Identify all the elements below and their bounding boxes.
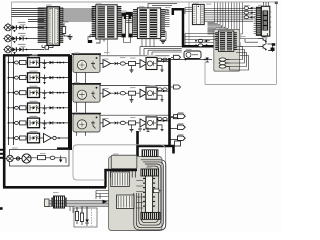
diode D17 <box>55 156 66 164</box>
resistor R2 <box>62 23 65 36</box>
capacitor C21 <box>15 61 19 64</box>
sensor box RV4 <box>184 51 201 59</box>
resistor R23 <box>120 121 128 124</box>
wire rail V1 <box>8 57 10 146</box>
LED D14 <box>50 106 65 109</box>
wire U3 side whiskers <box>126 10 170 46</box>
flag OUT3 <box>171 115 181 119</box>
resistor R25 <box>129 91 140 102</box>
wire bus frame to U1 <box>12 9 45 22</box>
left panel box border <box>3 55 106 187</box>
IC U6 <box>215 31 237 51</box>
capacitor C24 <box>15 106 19 109</box>
resistor R32 <box>244 16 255 19</box>
sensor box RV3 <box>72 114 102 132</box>
diode D40 <box>85 207 89 226</box>
LED D12 <box>50 76 65 79</box>
optocoupler U14 <box>28 101 40 113</box>
diode D2 <box>18 22 26 30</box>
op-amp U23A <box>100 119 114 127</box>
wire vertical bus to B1 <box>208 3 243 35</box>
wire U3 top <box>148 4 177 14</box>
diode D3 <box>12 36 17 43</box>
wire module left pins <box>136 181 143 209</box>
op-amp U21B <box>140 60 149 68</box>
wire row 2 output <box>157 90 170 101</box>
IC U3 <box>133 8 165 39</box>
resistor R24 <box>129 62 140 73</box>
wire net IN1 <box>10 27 44 29</box>
wire net IN3 <box>10 49 44 51</box>
wire row 3 output <box>157 120 170 131</box>
op-amp U23B <box>140 119 149 127</box>
op-amp U22B <box>140 89 149 97</box>
module block M2 <box>109 157 163 231</box>
transformer T1 <box>51 196 66 208</box>
transistor Q12 <box>43 75 47 85</box>
crystal X2 <box>141 212 160 219</box>
LED D13 <box>50 91 65 94</box>
display DS1 <box>261 6 271 36</box>
motor M1 <box>13 154 31 163</box>
optocoupler U29 <box>146 115 157 129</box>
resistor R29 <box>158 118 168 121</box>
sensor box RV2 <box>72 84 102 102</box>
rectifier box <box>74 208 97 227</box>
transistor Q8 <box>258 44 267 51</box>
connector J4 <box>5 155 14 161</box>
diode D23 <box>115 121 121 124</box>
IC U4 <box>192 4 204 24</box>
wire bus U4 to display <box>204 9 253 22</box>
ground GND2 <box>160 32 166 44</box>
flag F3 <box>171 136 186 140</box>
resistor R13 <box>20 91 27 95</box>
wire panel ticks <box>0 149 3 210</box>
wire C1-C2 bridge <box>125 14 130 19</box>
LED D15 <box>50 121 65 124</box>
resistor R30 <box>244 7 255 10</box>
IC U8 <box>111 172 130 187</box>
resistor R45 <box>175 141 181 146</box>
IC U2 <box>92 5 122 43</box>
optocoupler U27 <box>146 56 157 70</box>
transistor Q14 <box>43 105 47 115</box>
wire to Q7 Q8 bases <box>240 35 258 47</box>
transistor Q11 <box>43 60 47 70</box>
resistor R41 <box>75 207 78 224</box>
wire block exits <box>96 191 109 200</box>
connector tab CN1 <box>111 155 137 169</box>
transistor Q15 <box>43 120 47 130</box>
resistor R26 <box>129 121 140 132</box>
resistor R17 <box>28 156 50 160</box>
diode D6 <box>18 44 26 52</box>
wire tab bar <box>104 169 137 171</box>
wire opto row 2 <box>8 77 68 79</box>
wire thick bus BV2 <box>136 131 139 158</box>
capacitor C2 <box>129 13 133 37</box>
connector CN2 <box>142 150 158 157</box>
wire opto row 5 <box>8 122 68 124</box>
wire bus U1 to U2 <box>63 9 94 21</box>
connector block B1 <box>214 29 240 71</box>
wire row 2 top rail <box>77 86 170 114</box>
wire opto row 1 <box>8 62 68 64</box>
capacitor C26 <box>15 137 19 140</box>
diode D4 <box>18 33 26 41</box>
wire loops L1 <box>134 160 166 230</box>
transistor Q13 <box>43 90 47 100</box>
flag OUT2 <box>171 85 181 89</box>
resistor R15 <box>20 121 27 125</box>
wire net IN2 <box>10 38 44 40</box>
wire B1 loops <box>226 47 249 71</box>
resistor R29 <box>195 44 210 47</box>
flag F2 <box>171 125 186 129</box>
flag OUT1 <box>171 55 181 59</box>
resistor R22 <box>120 92 128 95</box>
op-amp U21A <box>100 60 114 68</box>
wire row 1 output <box>157 61 170 72</box>
IC U1 <box>38 7 64 46</box>
wire ribbon drops <box>70 207 87 220</box>
optocoupler U15 <box>28 116 40 128</box>
capacitor C27 <box>50 156 55 159</box>
wire B1 to bus <box>185 34 216 46</box>
capacitor C23 <box>15 91 19 94</box>
wire C1 C2 stubs <box>124 37 131 43</box>
wire display emitters <box>263 33 275 52</box>
wire row 3 top rail <box>77 115 170 136</box>
IC U9 <box>117 195 135 209</box>
resistor R16 <box>20 136 27 140</box>
wire opto row 4 <box>8 107 68 109</box>
connector J3 <box>3 45 11 53</box>
ground GND3 <box>88 35 96 43</box>
diode D5 <box>12 47 17 54</box>
op-amp U16 <box>44 134 60 143</box>
op-amp U22A <box>100 89 114 97</box>
resistor R40 <box>154 189 162 193</box>
wire thick VCC bus <box>173 9 214 46</box>
crystal X1 <box>141 169 159 176</box>
capacitor C10 <box>219 58 229 61</box>
capacitor C22 <box>15 76 19 79</box>
resistor R21 <box>120 62 128 65</box>
resistor R28 <box>158 88 168 91</box>
transistor Q7 <box>258 36 267 43</box>
wire dashed ref <box>91 209 93 226</box>
capacitor C11 <box>219 61 229 64</box>
resistor R42 <box>80 207 83 225</box>
wire U2 to row1 <box>107 39 109 55</box>
wire display top stubs <box>264 2 269 6</box>
resistor R28 <box>195 39 210 42</box>
resistor R27 <box>158 58 168 61</box>
motor M1 circuit box <box>10 150 70 167</box>
wire ribbon <box>45 201 109 207</box>
optocoupler U28 <box>146 85 157 99</box>
transistor Q20 <box>138 128 150 133</box>
capacitor C25 <box>15 121 19 124</box>
optocoupler U13 <box>28 86 40 98</box>
diode D22 <box>115 92 121 95</box>
diode D1 <box>12 25 17 32</box>
wire rail V2 <box>13 57 15 146</box>
resistor R12 <box>20 76 27 80</box>
resistor R1 <box>42 44 53 49</box>
wire comb <box>111 171 136 178</box>
optocoupler U16 <box>28 131 40 143</box>
flag F1 <box>171 114 186 118</box>
IC U5 display driver <box>254 7 262 35</box>
wire U4 left <box>185 8 192 15</box>
wire bundle below U3 <box>140 47 182 55</box>
capacitor C1 <box>122 13 126 37</box>
wire row1 tail <box>161 55 212 60</box>
optocoupler U11 <box>28 56 40 68</box>
optocoupler U12 <box>28 71 40 83</box>
wire row 1 top rail <box>77 56 170 84</box>
LED D11 <box>50 61 65 64</box>
IC U10 module <box>143 176 155 212</box>
wire opto row 3 <box>8 92 68 94</box>
arrow A1 <box>103 200 108 204</box>
wire opto row 6 <box>8 137 68 139</box>
resistor R31 <box>244 11 255 14</box>
diode D30 <box>206 58 209 63</box>
connector J1 <box>3 23 11 31</box>
connector CN3 <box>45 199 50 207</box>
ground GND1 <box>64 34 73 39</box>
connector J2 <box>3 34 11 42</box>
diode D21 <box>115 62 121 65</box>
board outline <box>73 145 166 231</box>
resistor R11 <box>20 61 27 65</box>
wire thick bus BV1 <box>138 58 175 154</box>
capacitor C12 <box>219 65 229 68</box>
sensor box RV1 <box>72 54 102 72</box>
resistor R14 <box>20 106 27 110</box>
